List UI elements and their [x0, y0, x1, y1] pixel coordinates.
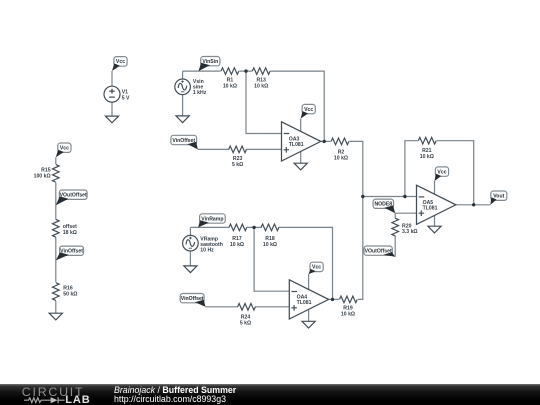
svg-text:1 kHz: 1 kHz — [193, 90, 207, 96]
svg-text:Vcc: Vcc — [312, 265, 321, 271]
svg-text:LAB: LAB — [65, 394, 90, 405]
svg-text:Vcc: Vcc — [437, 169, 446, 175]
svg-text:NODE8: NODE8 — [374, 202, 392, 208]
svg-text:10 kΩ: 10 kΩ — [263, 242, 277, 248]
svg-text:10 kΩ: 10 kΩ — [334, 155, 348, 161]
svg-text:VOutOffset: VOutOffset — [60, 193, 87, 199]
svg-text:VOutOffset: VOutOffset — [365, 249, 392, 255]
svg-text:TL081: TL081 — [289, 142, 304, 148]
svg-text:18 kΩ: 18 kΩ — [63, 230, 77, 236]
svg-text:10 kΩ: 10 kΩ — [230, 242, 244, 248]
svg-text:VinSin: VinSin — [202, 59, 218, 65]
svg-text:50 kΩ: 50 kΩ — [63, 291, 77, 297]
svg-text:5 V: 5 V — [122, 95, 130, 101]
svg-text:VinOffset: VinOffset — [181, 296, 204, 302]
svg-text:10 kΩ: 10 kΩ — [341, 311, 355, 317]
svg-text:Vcc: Vcc — [60, 146, 69, 152]
svg-text:Vcc: Vcc — [116, 59, 125, 65]
svg-text:5 kΩ: 5 kΩ — [240, 321, 251, 327]
svg-text:Vcc: Vcc — [304, 107, 313, 113]
svg-text:VinOffset: VinOffset — [172, 138, 195, 144]
svg-text:Vout: Vout — [493, 194, 504, 200]
svg-text:10 kΩ: 10 kΩ — [254, 83, 268, 89]
svg-text:TL081: TL081 — [297, 300, 312, 306]
svg-text:5 kΩ: 5 kΩ — [232, 162, 243, 168]
svg-text:VinOffset: VinOffset — [60, 249, 83, 255]
svg-text:VinRamp: VinRamp — [201, 216, 223, 222]
svg-text:10 kΩ: 10 kΩ — [223, 83, 237, 89]
svg-text:3.3 kΩ: 3.3 kΩ — [402, 229, 418, 235]
svg-text:10 kΩ: 10 kΩ — [420, 154, 434, 160]
svg-text:TL081: TL081 — [423, 206, 438, 212]
svg-text:100 kΩ: 100 kΩ — [34, 173, 51, 179]
svg-text:10 Hz: 10 Hz — [200, 248, 214, 254]
